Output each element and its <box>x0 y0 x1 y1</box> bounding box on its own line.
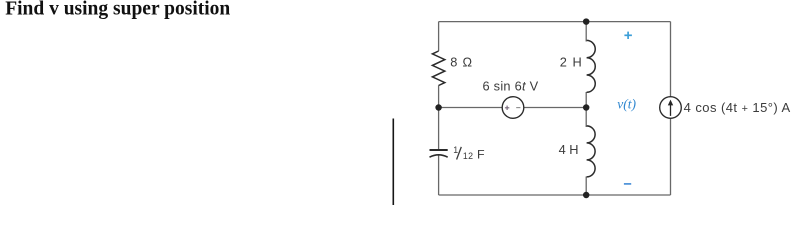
svg-text:1: 1 <box>453 145 458 155</box>
svg-text:Find v using super position: Find v using super position <box>5 0 230 20</box>
svg-text:4 cos (4t + 15°) A: 4 cos (4t + 15°) A <box>684 100 791 115</box>
svg-text:v(t): v(t) <box>617 97 636 112</box>
svg-text:F: F <box>477 148 485 162</box>
svg-text:8 Ω: 8 Ω <box>450 55 473 70</box>
svg-text:4 H: 4 H <box>559 142 579 157</box>
svg-text:6 sin 6t V: 6 sin 6t V <box>483 78 539 93</box>
svg-text:12: 12 <box>463 151 473 161</box>
svg-text:2 H: 2 H <box>560 55 583 70</box>
